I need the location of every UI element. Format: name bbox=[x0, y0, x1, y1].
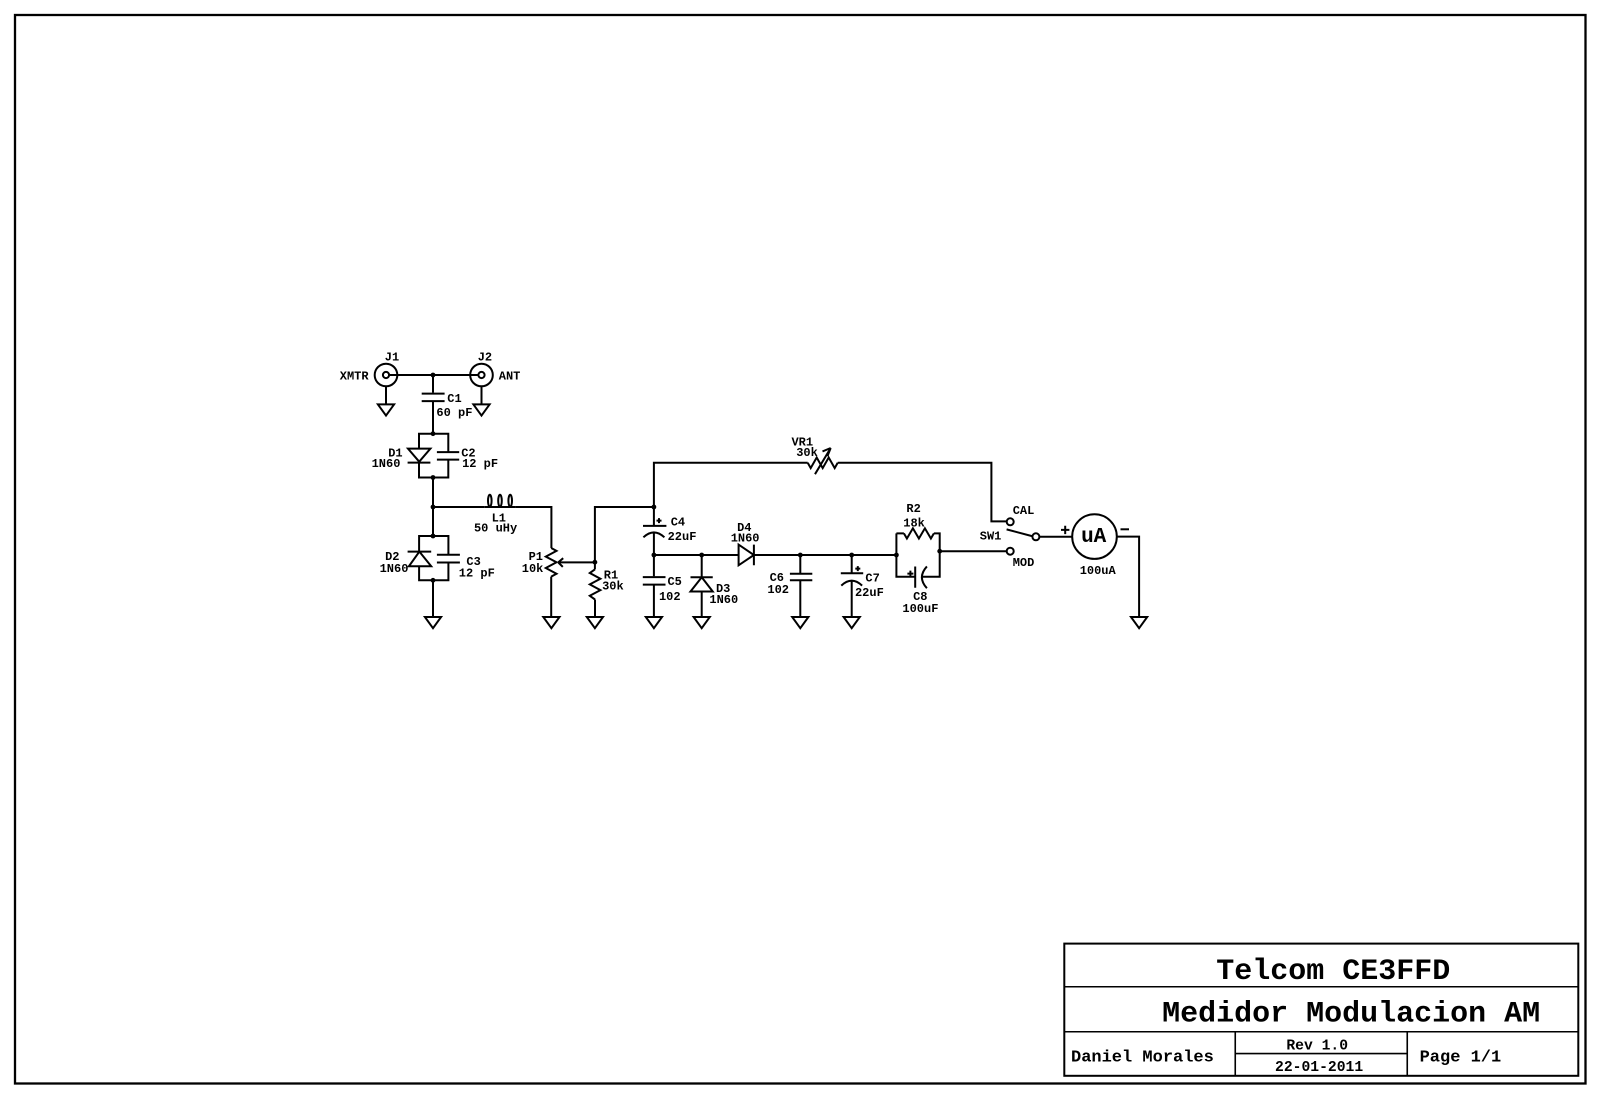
wire node to D2/C3 box bbox=[432, 507, 434, 536]
wire wiper to R1 bbox=[594, 562, 596, 569]
ground at C7 bbox=[844, 617, 860, 628]
svg-text:Telcom CE3FFD: Telcom CE3FFD bbox=[1216, 955, 1450, 989]
meter M1 bbox=[1061, 514, 1129, 578]
svg-text:22uF: 22uF bbox=[668, 530, 697, 544]
connector J1 bbox=[340, 350, 399, 386]
wire D3 to ground bbox=[701, 592, 703, 617]
ground at P1 bbox=[543, 617, 559, 628]
ground at C5 bbox=[646, 617, 662, 628]
potentiometer VR1 bbox=[791, 435, 837, 474]
svg-text:Daniel Morales: Daniel Morales bbox=[1071, 1049, 1214, 1068]
svg-text:18k: 18k bbox=[903, 517, 925, 531]
capacitor C4 bbox=[643, 515, 696, 544]
svg-text:102: 102 bbox=[659, 590, 681, 604]
svg-text:1N60: 1N60 bbox=[709, 593, 738, 607]
wire R1 to ground bbox=[594, 600, 596, 617]
svg-text:C4: C4 bbox=[671, 515, 685, 529]
svg-text:100uA: 100uA bbox=[1080, 564, 1117, 578]
wire riser to VR1 rail bbox=[654, 463, 808, 507]
svg-text:J1: J1 bbox=[385, 350, 399, 364]
node R2 box right / MOD tap bbox=[937, 549, 942, 554]
diode D2 bbox=[380, 550, 432, 576]
svg-text:102: 102 bbox=[767, 583, 789, 597]
node VR1/C4 tap bbox=[652, 505, 657, 510]
wire rail C4 to D4 bbox=[654, 554, 739, 556]
wire C5 lead bbox=[653, 555, 655, 576]
node rail at C6 bbox=[798, 553, 803, 558]
wire box2 to ground bbox=[432, 580, 434, 617]
wire C6 lead bbox=[799, 555, 801, 573]
svg-text:CAL: CAL bbox=[1013, 504, 1035, 518]
svg-text:1N60: 1N60 bbox=[731, 531, 760, 545]
node rail at C4/C5 bbox=[652, 553, 657, 558]
svg-text:12 pF: 12 pF bbox=[459, 566, 495, 580]
svg-text:Medidor Modulacion AM: Medidor Modulacion AM bbox=[1162, 998, 1540, 1032]
diode D4 bbox=[731, 521, 760, 565]
resistor R2 bbox=[903, 502, 934, 539]
capacitor C7 bbox=[841, 566, 884, 600]
wire D4 to R2 box bbox=[754, 554, 897, 556]
wire meter to ground bbox=[1117, 537, 1139, 617]
wire L1 to P1 bbox=[515, 507, 551, 548]
ground at J1 bbox=[378, 404, 394, 415]
capacitor C1 bbox=[422, 392, 473, 420]
node rail at D3 bbox=[699, 553, 704, 558]
node wiper junction bbox=[593, 560, 598, 565]
ground at R1 bbox=[587, 617, 603, 628]
capacitor C2 bbox=[437, 446, 498, 471]
diode D3 bbox=[691, 577, 739, 607]
wire D2/C3 parallel frame bbox=[419, 536, 448, 580]
svg-text:30k: 30k bbox=[796, 446, 818, 460]
wire C4 to rail bbox=[653, 533, 655, 556]
wire J2 stub bbox=[481, 386, 483, 404]
node D1/C2 bottom bbox=[431, 475, 436, 480]
resistor R1 bbox=[590, 569, 624, 600]
svg-text:1N60: 1N60 bbox=[380, 562, 409, 576]
wire SW1 common to meter bbox=[1039, 536, 1072, 538]
ground at meter bbox=[1131, 617, 1147, 628]
capacitor C3 bbox=[437, 555, 495, 581]
node D2/C3 bottom bbox=[431, 578, 436, 583]
node D1/C2 top bbox=[431, 431, 436, 436]
svg-text:1N60: 1N60 bbox=[372, 457, 401, 471]
wire wiper riser bbox=[595, 507, 654, 562]
svg-text:10k: 10k bbox=[522, 562, 544, 576]
svg-text:22-01-2011: 22-01-2011 bbox=[1275, 1060, 1363, 1076]
capacitor C6 bbox=[767, 571, 812, 597]
wire node to L1 bbox=[433, 506, 485, 508]
svg-text:Page 1/1: Page 1/1 bbox=[1420, 1049, 1502, 1068]
svg-text:R2: R2 bbox=[906, 502, 920, 516]
wire R2/C8 frame bbox=[896, 533, 939, 576]
wire C7 to ground bbox=[851, 581, 853, 617]
svg-text:XMTR: XMTR bbox=[340, 369, 370, 383]
diode D1 bbox=[372, 446, 431, 471]
potentiometer P1 bbox=[522, 548, 595, 577]
node rail at C7 bbox=[849, 553, 854, 558]
svg-text:C5: C5 bbox=[667, 575, 681, 589]
node at L1 tap bbox=[431, 505, 436, 510]
wire node to C1 bbox=[432, 375, 434, 393]
svg-text:Rev 1.0: Rev 1.0 bbox=[1286, 1038, 1348, 1054]
wire C7 lead bbox=[851, 555, 853, 573]
wire C1 to D1/C2 box bbox=[432, 402, 434, 434]
ground at D3 bbox=[694, 617, 710, 628]
svg-text:100uF: 100uF bbox=[902, 602, 938, 616]
svg-text:50 uHy: 50 uHy bbox=[474, 522, 517, 536]
wire D3 lead bbox=[701, 555, 703, 577]
connector J2 bbox=[470, 350, 520, 386]
wire J1 stub bbox=[385, 386, 387, 404]
inductor L1 bbox=[474, 495, 517, 536]
wire P1 to ground bbox=[550, 577, 552, 617]
node D2/C3 tap bbox=[431, 534, 436, 539]
switch SW1 bbox=[980, 504, 1040, 570]
svg-text:30k: 30k bbox=[602, 580, 624, 594]
capacitor C5 bbox=[643, 575, 682, 604]
wire D1/C2 parallel frame bbox=[419, 434, 448, 478]
wire J1 to J2 bbox=[389, 374, 478, 376]
svg-text:C1: C1 bbox=[447, 392, 461, 406]
svg-text:uA: uA bbox=[1081, 526, 1107, 549]
svg-text:SW1: SW1 bbox=[980, 530, 1002, 544]
svg-text:12 pF: 12 pF bbox=[462, 457, 498, 471]
title block bbox=[1064, 944, 1578, 1077]
node at C1 top bbox=[431, 373, 436, 378]
wire C6 to ground bbox=[799, 581, 801, 617]
ground at D2/C3 bbox=[425, 617, 441, 628]
wire to MOD contact bbox=[940, 550, 1007, 552]
wire box1 to node L1 bbox=[432, 478, 434, 508]
wire C5 to ground bbox=[653, 585, 655, 617]
ground at C6 bbox=[792, 617, 808, 628]
svg-text:J2: J2 bbox=[478, 350, 492, 364]
svg-text:MOD: MOD bbox=[1013, 556, 1035, 570]
wire node to C4 bbox=[653, 507, 655, 525]
svg-text:C7: C7 bbox=[865, 571, 879, 585]
svg-text:60 pF: 60 pF bbox=[436, 406, 472, 420]
wire VR1 to SW1 CAL bbox=[838, 463, 1007, 522]
svg-text:ANT: ANT bbox=[499, 369, 521, 383]
capacitor C8 bbox=[902, 566, 938, 615]
svg-text:22uF: 22uF bbox=[855, 586, 884, 600]
node rail at R2 box left bbox=[894, 553, 899, 558]
ground at J2 bbox=[473, 404, 489, 415]
